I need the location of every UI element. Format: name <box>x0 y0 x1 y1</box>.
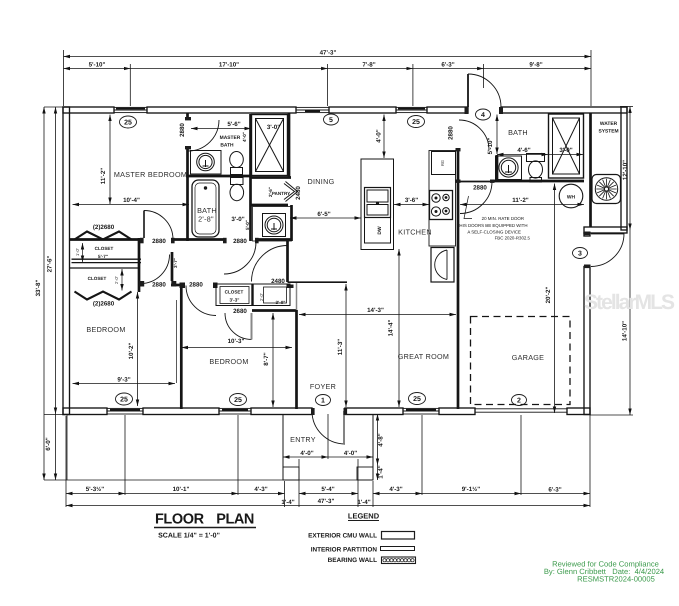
entry step left <box>283 467 299 480</box>
entry step right <box>357 467 373 480</box>
extension ticks top row <box>129 64 131 106</box>
svg-text:StellarMLS: StellarMLS <box>584 291 675 314</box>
window mark 5 dining <box>324 114 339 125</box>
interior wall bedroom2 west <box>180 283 183 409</box>
svg-text:2'-8": 2'-8" <box>198 215 214 224</box>
bath vanity 2 <box>253 207 292 242</box>
svg-text:4'-8": 4'-8" <box>378 433 385 446</box>
svg-text:10'-2": 10'-2" <box>128 343 135 360</box>
extension line bedroom1 east <box>176 300 178 383</box>
interior wall master bedroom east / bath west <box>186 148 189 242</box>
svg-text:4'-0": 4'-0" <box>376 129 383 142</box>
svg-text:6'-5": 6'-5" <box>317 211 330 218</box>
svg-text:1: 1 <box>321 398 325 405</box>
svg-text:8'-7": 8'-7" <box>263 352 270 365</box>
dim line 7'-8" <box>328 68 413 70</box>
window bedroom2 bottom <box>219 408 251 414</box>
interior dim 6'-5" dining <box>290 217 361 219</box>
interior dim 5'-10" bath hall vertical <box>496 115 498 155</box>
svg-text:PANTRY: PANTRY <box>272 191 290 196</box>
interior dim 11'-2" hall to garage <box>460 204 584 206</box>
interior wall vanity-corridor west <box>286 241 289 282</box>
exterior step wall right <box>584 227 627 233</box>
closet1 chevron bifold doors <box>75 232 132 240</box>
svg-text:5'-6": 5'-6" <box>227 121 240 128</box>
interior dim 4'-0" dining vertical <box>383 115 385 159</box>
svg-text:2: 2 <box>517 398 521 405</box>
door mark 2 garage <box>512 395 527 406</box>
svg-text:2480: 2480 <box>271 278 285 285</box>
svg-text:4'-0": 4'-0" <box>300 450 313 457</box>
kitchen counter east <box>429 151 456 247</box>
approval stamp green text <box>544 560 664 584</box>
svg-text:2880: 2880 <box>179 123 186 137</box>
svg-text:4'-0": 4'-0" <box>344 450 357 457</box>
master bath vanity <box>191 151 222 175</box>
svg-text:DW: DW <box>377 226 383 235</box>
interior wall water system west <box>589 113 592 227</box>
svg-text:33'-8": 33'-8" <box>35 280 42 297</box>
dim line 17'-10" <box>130 68 327 70</box>
svg-text:2880: 2880 <box>152 282 166 289</box>
svg-text:5'-10": 5'-10" <box>487 138 494 155</box>
svg-text:10'-4": 10'-4" <box>123 197 140 204</box>
interior wall bath strip divider <box>496 155 499 181</box>
extension line top-left <box>63 50 65 106</box>
window mark 25 kitchen <box>408 116 425 128</box>
linen box bath right with X <box>549 114 584 178</box>
door arc kitchen hall door <box>459 120 489 150</box>
door arc exterior side door 3 <box>591 234 624 267</box>
svg-text:CLOSET: CLOSET <box>95 246 114 251</box>
svg-text:DINING: DINING <box>308 177 335 186</box>
svg-text:2880: 2880 <box>189 282 203 289</box>
window mark 25 bedroom2 <box>230 394 247 406</box>
water system fan unit <box>592 175 621 204</box>
svg-text:4'-6": 4'-6" <box>517 147 530 154</box>
door arc entry door 1 <box>312 411 345 444</box>
svg-text:EXTERIOR CMU WALL: EXTERIOR CMU WALL <box>308 533 377 540</box>
svg-text:2880: 2880 <box>233 238 247 245</box>
svg-text:6'-3": 6'-3" <box>548 487 561 494</box>
svg-text:RG: RG <box>440 160 445 166</box>
interior dim 8'-7" bedroom2 vertical <box>272 313 274 407</box>
door mark 1 foyer <box>316 395 331 406</box>
svg-text:2480: 2480 <box>295 186 302 200</box>
svg-text:27'-6": 27'-6" <box>47 256 54 273</box>
svg-text:4'-3": 4'-3" <box>389 486 402 493</box>
svg-text:3'-0": 3'-0" <box>559 147 572 154</box>
closet1 bottom wall <box>72 258 142 260</box>
svg-text:25: 25 <box>412 119 420 126</box>
svg-text:3'-0": 3'-0" <box>267 124 280 131</box>
interior dim 20'-2" garage vertical <box>554 184 556 414</box>
garage overhead door panel <box>475 409 567 412</box>
svg-text:12'-10": 12'-10" <box>622 160 629 180</box>
svg-text:14'-4": 14'-4" <box>388 320 395 337</box>
shower linen box master with X <box>252 115 288 176</box>
dim line 5'-10" <box>64 68 131 70</box>
svg-text:9'-1½": 9'-1½" <box>462 486 481 493</box>
closet2 chevron bifold doors <box>75 292 132 300</box>
svg-text:FOYER: FOYER <box>310 382 336 391</box>
svg-text:LEGEND: LEGEND <box>348 512 380 521</box>
kitchen fridge <box>431 248 454 283</box>
svg-text:9'-8": 9'-8" <box>529 62 542 69</box>
bath toilet top right <box>527 154 545 162</box>
interior wall master bedroom east upper stub <box>186 113 189 120</box>
kitchen island <box>361 159 394 250</box>
door arc hall door lower <box>141 255 170 284</box>
svg-text:BEDROOM: BEDROOM <box>86 325 125 334</box>
interior dim 14'-3" great room <box>299 314 456 316</box>
svg-text:RESMSTR2024-00005: RESMSTR2024-00005 <box>577 575 655 584</box>
window mark 25 great room <box>409 393 426 405</box>
svg-text:11'-2": 11'-2" <box>100 168 107 185</box>
interior wall closet2 top <box>70 267 139 269</box>
svg-text:BEARING WALL: BEARING WALL <box>328 557 377 564</box>
bath toilet <box>231 178 244 185</box>
svg-text:5'-3½": 5'-3½" <box>86 486 105 493</box>
svg-text:2680: 2680 <box>233 308 247 315</box>
window W1 master bedroom top <box>114 107 147 112</box>
interior dim 9'-3" bedroom1 <box>73 383 176 385</box>
exterior right wall upper (water system) <box>621 107 627 230</box>
svg-text:5'-4": 5'-4" <box>321 486 334 493</box>
svg-text:SYSTEM: SYSTEM <box>598 129 618 135</box>
window bedroom1 bottom <box>107 408 143 414</box>
interior wall A master/bath south <box>69 238 143 241</box>
svg-text:4'-0": 4'-0" <box>242 132 247 142</box>
svg-text:MASTER BEDROOM: MASTER BEDROOM <box>114 170 187 179</box>
door arc hall-dining door 2480 <box>252 246 288 282</box>
svg-text:ENTRY: ENTRY <box>290 435 316 444</box>
kitchen RG box <box>432 152 456 175</box>
svg-text:25: 25 <box>124 120 132 127</box>
svg-text:5'-7": 5'-7" <box>98 254 108 259</box>
svg-text:2880: 2880 <box>473 185 487 192</box>
interior dim 11'-2" master bedroom vertical <box>109 115 111 204</box>
svg-text:3'-6": 3'-6" <box>405 197 418 204</box>
entry dim 4'-8" / 1'-4" vertical <box>377 414 379 465</box>
title FLOOR PLAN <box>154 512 380 540</box>
svg-text:CLOSET: CLOSET <box>88 276 107 281</box>
extension lines left <box>44 106 66 108</box>
svg-text:4: 4 <box>481 112 485 119</box>
exterior left wall <box>63 107 70 415</box>
window mark 25 top left <box>120 116 137 128</box>
svg-text:BEDROOM: BEDROOM <box>209 357 248 366</box>
interior dim 10'-4" master bedroom <box>73 204 190 206</box>
svg-text:1'-4": 1'-4" <box>281 499 294 506</box>
bottom extension lines <box>65 416 67 507</box>
svg-text:GREAT ROOM: GREAT ROOM <box>398 352 449 361</box>
interior dim 3'-6" kitchen <box>394 204 429 206</box>
svg-text:5: 5 <box>329 117 333 124</box>
dim line 14'-10" right <box>629 230 631 415</box>
exterior top wall segments <box>63 107 114 113</box>
interior wall kitchen east bearing <box>457 150 460 409</box>
svg-text:3: 3 <box>578 251 582 258</box>
interior wall dining west / shower east <box>288 113 291 177</box>
dim line 9'-8" <box>484 68 591 70</box>
svg-text:14'-10": 14'-10" <box>622 321 629 341</box>
porch slab line <box>66 479 373 481</box>
window W3 kitchen top <box>396 107 427 112</box>
interior dim 4'-6" bath <box>497 154 548 156</box>
svg-text:25: 25 <box>234 397 242 404</box>
svg-text:14'-3": 14'-3" <box>367 307 384 314</box>
svg-text:2'-0": 2'-0" <box>259 292 264 301</box>
interior wall pantry north <box>251 176 291 179</box>
dim line 27'-6" left inner <box>55 107 57 414</box>
svg-text:BATH: BATH <box>508 128 528 137</box>
door jamb blocks <box>185 117 191 120</box>
svg-text:25: 25 <box>413 396 421 403</box>
svg-text:3'-3": 3'-3" <box>230 298 240 303</box>
svg-text:2880: 2880 <box>448 126 455 140</box>
extension lines right <box>620 106 633 108</box>
svg-text:MASTER: MASTER <box>220 135 241 141</box>
svg-text:3'-0": 3'-0" <box>231 216 244 223</box>
pantry chevron door <box>286 182 298 202</box>
svg-text:6'-3": 6'-3" <box>441 62 454 69</box>
water heater WH <box>559 184 583 208</box>
bath sink top right <box>496 156 522 180</box>
window great room bottom <box>403 408 439 414</box>
svg-text:(2)2680: (2)2680 <box>93 301 115 308</box>
svg-text:WH: WH <box>567 195 576 201</box>
svg-text:5'-10": 5'-10" <box>89 62 106 69</box>
svg-text:1'-0": 1'-0" <box>75 247 80 256</box>
extension line top-right <box>590 50 592 106</box>
dim line 6'-3" <box>413 68 484 70</box>
svg-text:2'-0": 2'-0" <box>114 275 119 284</box>
door arc bedroom2 door <box>186 286 216 316</box>
svg-text:FBC 2020-R302.5: FBC 2020-R302.5 <box>495 236 531 241</box>
svg-text:THIS DOORS BE EQUIPPED WITH: THIS DOORS BE EQUIPPED WITH <box>457 223 528 228</box>
bedroom2 closet box <box>216 284 290 306</box>
door arc hall bath door <box>224 242 256 274</box>
dim line 6'-0" left <box>55 414 57 480</box>
svg-text:10'-1": 10'-1" <box>173 486 190 493</box>
svg-text:1'-4": 1'-4" <box>378 465 385 478</box>
dim line 33'-8" left outer <box>43 107 45 480</box>
interior dim 5'-6" master bath <box>191 128 251 130</box>
svg-text:GARAGE: GARAGE <box>512 353 545 362</box>
svg-text:20'-2": 20'-2" <box>545 287 552 304</box>
interior wall closet east <box>138 238 141 292</box>
interior dim 3'-0" linen <box>549 154 583 156</box>
dim line 12'-10" right <box>629 107 631 231</box>
svg-text:4'-3": 4'-3" <box>254 486 267 493</box>
svg-text:47'-3": 47'-3" <box>318 498 335 505</box>
svg-text:3'-0": 3'-0" <box>276 300 286 305</box>
window mark 25 bedroom1 <box>116 393 133 405</box>
svg-text:SCALE 1/4" = 1'-0": SCALE 1/4" = 1'-0" <box>158 532 220 540</box>
bottom dim row 1 <box>66 493 125 495</box>
interior wall master bath south divider <box>186 175 251 178</box>
interior wall pantry south <box>251 204 288 207</box>
svg-text:20 MIN. RATE DOOR: 20 MIN. RATE DOOR <box>482 216 524 221</box>
door arc 20-min garage door <box>460 182 492 214</box>
interior dim 14'-4" great room vertical <box>398 249 400 407</box>
svg-text:2880: 2880 <box>152 238 166 245</box>
door arc master bedroom door <box>144 211 173 240</box>
svg-text:17'-10": 17'-10" <box>219 62 239 69</box>
bath tub <box>192 180 219 237</box>
svg-text:47'-3": 47'-3" <box>320 50 337 57</box>
door mark 4 <box>476 109 491 120</box>
interior dim 11'-3" foyer vertical <box>345 284 347 407</box>
door arc master bath door <box>188 120 219 151</box>
svg-text:7'-8": 7'-8" <box>362 62 375 69</box>
garage dashed outline <box>471 317 571 405</box>
interior wall bath south <box>492 180 584 183</box>
closet2 2'-0" dim <box>121 269 123 291</box>
svg-text:10'-3": 10'-3" <box>228 338 245 345</box>
entry dim 4'-0" 4'-0" <box>283 456 328 458</box>
interior wall bath east <box>249 114 252 241</box>
interior wall hall north jambs <box>171 284 181 287</box>
svg-text:5'-0": 5'-0" <box>245 220 250 230</box>
door arc bedroom2 closet door <box>225 313 252 340</box>
svg-text:25: 25 <box>120 397 128 404</box>
window W2 dining top <box>296 107 329 112</box>
svg-text:9'-3": 9'-3" <box>117 377 130 384</box>
interior wall corridor north (dining side) <box>288 281 348 283</box>
interior dim 10'-2" bedroom1 vertical <box>137 292 139 406</box>
svg-text:11'-3": 11'-3" <box>337 339 344 356</box>
svg-text:6'-0": 6'-0" <box>45 437 52 450</box>
bottom dim row 2 47'-3" <box>66 505 590 507</box>
svg-text:INTERIOR PARTITION: INTERIOR PARTITION <box>311 547 378 554</box>
exterior bottom wall segments <box>63 408 107 415</box>
interior dim 10'-3" bedroom2 <box>182 347 293 349</box>
svg-text:BATH: BATH <box>220 143 234 149</box>
leader line 20-min door note <box>464 196 472 219</box>
svg-text:3'-7": 3'-7" <box>173 258 178 268</box>
entry porch left edge line <box>66 415 68 481</box>
kitchen dishwasher <box>365 218 391 244</box>
interior wall hall stub <box>171 252 174 281</box>
master toilet <box>230 152 244 168</box>
interior wall vanity east <box>290 205 293 241</box>
kitchen stove <box>430 191 453 220</box>
closet1 1'-0" dim <box>82 243 84 262</box>
door mark 3 <box>573 248 588 259</box>
svg-text:WATER: WATER <box>600 121 618 127</box>
interior wall hall south <box>252 309 296 312</box>
svg-text:A SELF-CLOSING DEVICE: A SELF-CLOSING DEVICE <box>467 230 521 235</box>
20 min door note <box>457 216 531 241</box>
dim line 47'-3" top <box>64 56 592 58</box>
svg-text:(2)2680: (2)2680 <box>93 224 115 231</box>
door arc exterior front door 4 <box>468 74 501 107</box>
svg-text:1'-4": 1'-4" <box>357 499 370 506</box>
svg-text:KITCHEN: KITCHEN <box>398 228 432 237</box>
svg-text:FLOOR PLAN: FLOOR PLAN <box>155 512 255 528</box>
svg-text:11'-2": 11'-2" <box>512 197 529 204</box>
svg-text:CLOSET: CLOSET <box>225 290 244 295</box>
entry porch sides <box>282 415 284 481</box>
interior wall foyer west / bedroom2 east <box>296 283 298 311</box>
exterior right wall lower <box>584 233 590 236</box>
